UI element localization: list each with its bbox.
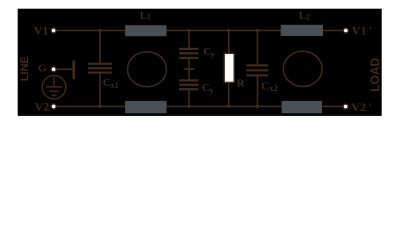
inductor L2 winding (top right) xyxy=(281,25,323,36)
choke winding bottom right xyxy=(282,101,322,113)
junction top rail at Cy xyxy=(187,29,190,32)
wire Cy branch lower xyxy=(188,90,190,106)
wire top rail V1 to L1 xyxy=(57,30,126,32)
ground tap bar on Cy midpoint xyxy=(184,68,194,70)
choke winding bottom left xyxy=(125,101,167,113)
terminal V2' xyxy=(343,104,348,109)
wire Cy branch middle xyxy=(188,59,190,80)
junction bottom rail at Cx1 xyxy=(98,105,101,108)
wire R branch lower xyxy=(228,82,230,106)
svg-text:LINE: LINE xyxy=(19,56,31,81)
svg-text:V1′: V1′ xyxy=(352,24,372,38)
terminal V2 xyxy=(51,104,56,109)
svg-text:LOAD: LOAD xyxy=(368,57,382,91)
wire bottom rail V2 to left choke winding xyxy=(57,105,126,107)
junction bottom rail at Cy xyxy=(187,105,190,108)
wire G terminal stub xyxy=(57,68,73,70)
svg-text:G: G xyxy=(38,63,47,75)
resistor R xyxy=(224,53,234,82)
svg-text:L1: L1 xyxy=(140,11,151,22)
inductor L1 winding (top left) xyxy=(125,25,166,36)
wire bottom rail between choke windings xyxy=(167,105,282,107)
chassis plate bar on G stub xyxy=(72,61,75,79)
choke core circle right xyxy=(283,51,322,86)
choke core circle left xyxy=(128,52,167,87)
junction bottom rail at R xyxy=(227,105,230,108)
wire Cx2 branch lower xyxy=(257,76,259,106)
capacitor Cy bottom plates xyxy=(179,79,199,90)
wire bottom rail right winding to V2' xyxy=(322,105,343,107)
terminal V1' xyxy=(343,28,348,33)
capacitor Cx1 plates xyxy=(88,63,112,74)
wire R branch upper xyxy=(228,31,230,54)
svg-text:Cx2: Cx2 xyxy=(261,80,278,93)
wire Cx1 branch upper xyxy=(99,31,101,63)
schematic panel background xyxy=(18,9,382,116)
wire Cx2 branch upper xyxy=(257,31,259,65)
terminal G xyxy=(51,67,56,72)
junction top rail at Cx1 xyxy=(98,29,101,32)
wire top rail L2 to V1' xyxy=(323,30,343,32)
svg-text:L2: L2 xyxy=(299,11,310,22)
svg-text:V2: V2 xyxy=(35,100,50,114)
capacitor Cy top plates xyxy=(179,48,199,59)
svg-text:R: R xyxy=(237,77,246,89)
junction top rail at R xyxy=(227,29,230,32)
svg-text:V2′: V2′ xyxy=(351,100,371,114)
wire Cy branch upper xyxy=(188,31,190,48)
capacitor Cx2 plates xyxy=(246,64,268,76)
protective earth ground symbol xyxy=(42,75,66,99)
junction top rail at Cx2 xyxy=(256,29,259,32)
wire top rail L1 to L2 xyxy=(167,30,281,32)
junction bottom rail at Cx2 xyxy=(256,105,259,108)
wire Cx1 branch lower xyxy=(99,74,101,107)
terminal V1 xyxy=(51,28,56,33)
svg-text:V1: V1 xyxy=(34,24,49,38)
